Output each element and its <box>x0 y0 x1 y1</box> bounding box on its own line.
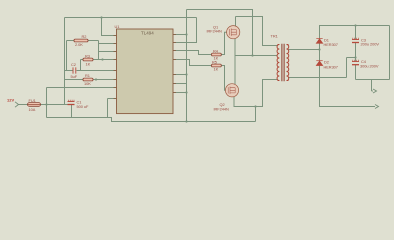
svg-text:FU1: FU1 <box>29 98 36 103</box>
svg-text:2.0K: 2.0K <box>75 42 83 47</box>
svg-text:IRF244N: IRF244N <box>207 28 222 33</box>
svg-text:HER307: HER307 <box>324 42 338 47</box>
svg-text:R1: R1 <box>85 73 90 78</box>
svg-text:R3: R3 <box>85 53 90 58</box>
svg-text:1K: 1K <box>214 67 219 72</box>
svg-text:R2: R2 <box>82 34 87 39</box>
svg-text:500 uF: 500 uF <box>77 104 89 109</box>
svg-text:IRF244N: IRF244N <box>214 106 229 111</box>
svg-text:1K: 1K <box>86 61 91 66</box>
svg-text:HER307: HER307 <box>324 64 338 69</box>
svg-text:U1: U1 <box>115 24 120 29</box>
svg-text:TR1: TR1 <box>271 33 278 38</box>
svg-text:TL494: TL494 <box>141 31 154 36</box>
svg-text:10K: 10K <box>84 81 91 86</box>
svg-text:300u 200V: 300u 200V <box>360 64 379 69</box>
svg-text:R5: R5 <box>212 59 217 64</box>
svg-text:10A: 10A <box>29 107 36 112</box>
svg-text:12V: 12V <box>7 97 14 102</box>
svg-text:200u 200V: 200u 200V <box>361 42 380 47</box>
svg-text:5uF: 5uF <box>71 74 78 79</box>
svg-text:C2: C2 <box>71 62 76 67</box>
